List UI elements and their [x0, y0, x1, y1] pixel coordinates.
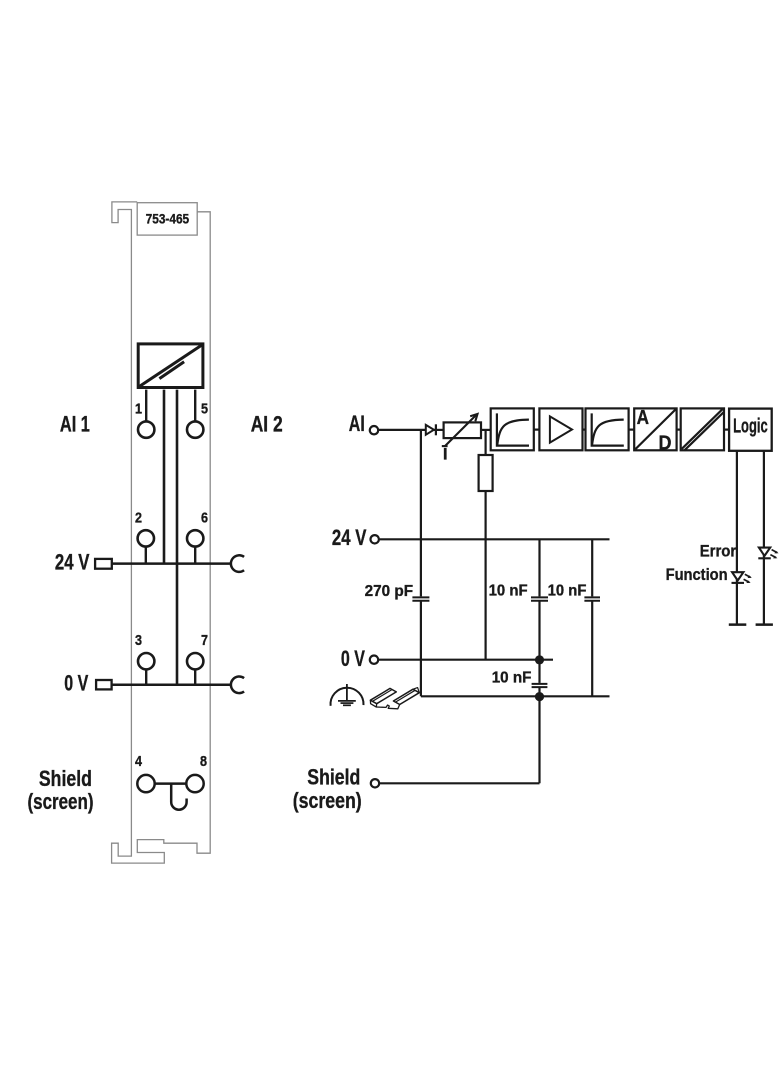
24V jumper contact C	[231, 555, 244, 572]
terminal 2	[138, 530, 154, 546]
wire cap 270pF to shield rail	[420, 601, 422, 696]
block filter 2	[586, 408, 629, 450]
shield terminal	[371, 779, 379, 787]
svg-text:4: 4	[135, 753, 143, 770]
wire	[677, 429, 681, 431]
svg-text:6: 6	[201, 509, 208, 526]
junction dot shield rail	[535, 692, 544, 701]
0V terminal	[370, 656, 378, 664]
24V terminal	[371, 535, 379, 543]
resistor R1	[479, 455, 493, 491]
shield link bar between 4 and 8	[155, 782, 187, 785]
terminal 5	[187, 421, 203, 437]
wire	[724, 429, 729, 431]
wire	[629, 429, 635, 431]
svg-text:270 pF: 270 pF	[365, 583, 414, 600]
terminal 1	[138, 421, 154, 437]
LED Function	[732, 572, 752, 583]
diode D1	[426, 425, 434, 435]
ground symbol	[331, 684, 364, 706]
wire stubs from converter to terminals 1 and 5	[146, 390, 195, 422]
wire long vertical to 24V row	[163, 390, 166, 564]
svg-text:24 V: 24 V	[332, 525, 367, 550]
0V horizontal wire	[112, 684, 231, 687]
AI terminal	[370, 426, 378, 434]
converter box U1 (measuring transducer symbol)	[138, 344, 203, 388]
wire trimmer to block1	[481, 429, 491, 431]
wire resistor to 0V rail	[485, 491, 487, 660]
svg-text:10 nF: 10 nF	[548, 582, 587, 599]
svg-text:(screen): (screen)	[28, 789, 94, 814]
wire	[583, 429, 586, 431]
wire logic right output down	[763, 451, 765, 625]
wire branch down to resistor	[485, 430, 487, 455]
LED Error	[758, 548, 778, 559]
24V rail	[379, 538, 610, 540]
svg-text:10 nF: 10 nF	[489, 583, 528, 600]
svg-text:3: 3	[135, 632, 142, 649]
svg-text:AI: AI	[349, 411, 365, 436]
svg-text:A: A	[637, 407, 649, 429]
junction dot 0V/10nF	[535, 655, 544, 664]
svg-text:Shield: Shield	[307, 765, 360, 790]
module 753-465 body outline	[112, 202, 211, 863]
label box 753-465	[137, 203, 197, 235]
DIN rail icon	[370, 688, 419, 709]
block galvanic isolation	[681, 408, 725, 450]
wire AI to diode	[378, 429, 426, 431]
svg-text:Shield: Shield	[39, 766, 92, 791]
svg-text:1: 1	[135, 401, 142, 418]
0V connector rect	[96, 680, 112, 689]
wire logic left output down	[736, 451, 738, 625]
svg-text:5: 5	[201, 401, 208, 418]
LED wire end bar right	[756, 623, 773, 626]
wire branch down from AI line	[420, 430, 422, 597]
svg-text:24 V: 24 V	[55, 549, 90, 574]
svg-text:8: 8	[200, 753, 207, 770]
wire long vertical to 0V row	[176, 390, 179, 685]
svg-text:2: 2	[135, 509, 142, 526]
shield hook	[171, 784, 186, 810]
terminal 6	[187, 530, 203, 546]
svg-text:Error: Error	[700, 541, 737, 560]
svg-text:(screen): (screen)	[293, 788, 362, 813]
24V connector rect	[95, 559, 112, 569]
trimmer resistor (adjustable, current source)	[444, 422, 481, 438]
svg-text:Function: Function	[666, 565, 728, 584]
wire diode to trimmer	[434, 429, 444, 431]
terminal 4	[137, 775, 154, 792]
svg-text:AI 1: AI 1	[60, 411, 90, 436]
svg-text:7: 7	[201, 632, 208, 649]
svg-text:Logic: Logic	[733, 415, 768, 437]
24V horizontal wire	[112, 562, 231, 565]
terminal 8	[186, 775, 203, 792]
svg-text:753-465: 753-465	[146, 211, 190, 227]
0V rail	[378, 659, 553, 661]
shield rail	[421, 695, 610, 697]
svg-text:I: I	[443, 445, 448, 464]
terminal 7	[187, 653, 203, 669]
svg-text:0 V: 0 V	[341, 646, 365, 671]
block A/D converter	[634, 408, 676, 450]
wire	[534, 429, 540, 431]
svg-text:0 V: 0 V	[64, 670, 88, 695]
wire shield terminal to junction	[379, 782, 539, 784]
svg-text:10 nF: 10 nF	[492, 669, 532, 686]
terminal 3	[138, 653, 154, 669]
block Logic	[729, 409, 772, 451]
svg-text:AI 2: AI 2	[251, 411, 283, 436]
svg-text:D: D	[659, 432, 672, 454]
LED wire end bar left	[729, 623, 747, 626]
block amplifier	[539, 408, 582, 450]
block filter 1	[491, 408, 534, 450]
0V jumper contact C	[231, 676, 244, 693]
